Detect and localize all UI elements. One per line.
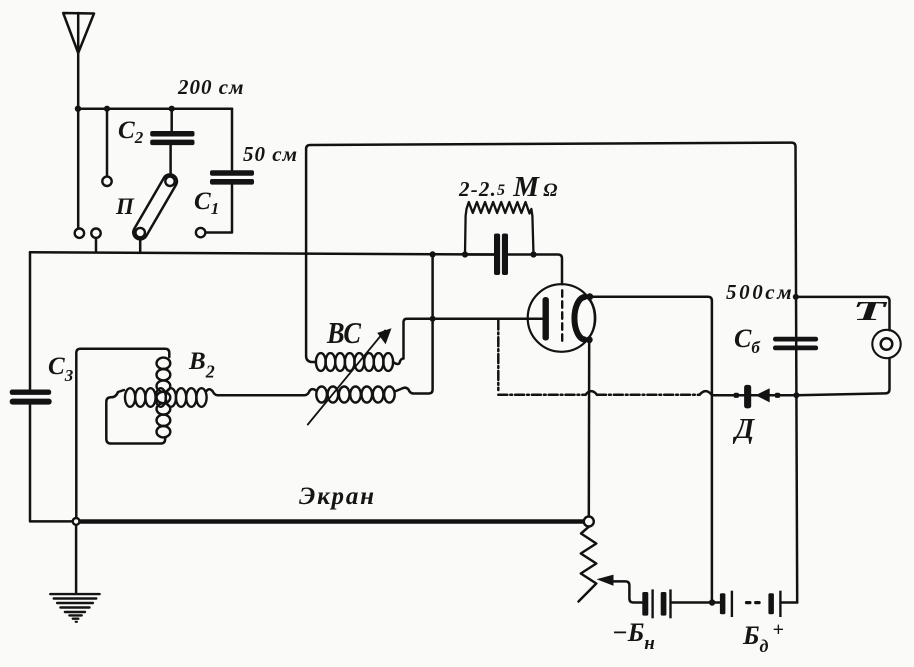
svg-text:200 см: 200 см (177, 75, 244, 99)
svg-text:Д: Д (732, 414, 755, 445)
svg-text:Экран: Экран (299, 483, 376, 510)
svg-text:В2: В2 (188, 348, 215, 382)
svg-text:Сб: Сб (734, 324, 761, 357)
svg-text:С2: С2 (118, 117, 144, 147)
svg-text:ВС: ВС (326, 316, 362, 350)
svg-text:Бд+: Бд+ (742, 619, 784, 656)
svg-text:2-2.5МΩ: 2-2.5МΩ (458, 171, 559, 203)
svg-text:С3: С3 (48, 353, 74, 385)
svg-text:500см: 500см (726, 280, 794, 304)
svg-text:−Бн: −Бн (612, 618, 655, 654)
svg-text:П: П (115, 194, 135, 219)
svg-text:С1: С1 (194, 188, 219, 218)
svg-text:Т: Т (853, 297, 888, 327)
svg-text:50 см: 50 см (243, 142, 298, 166)
